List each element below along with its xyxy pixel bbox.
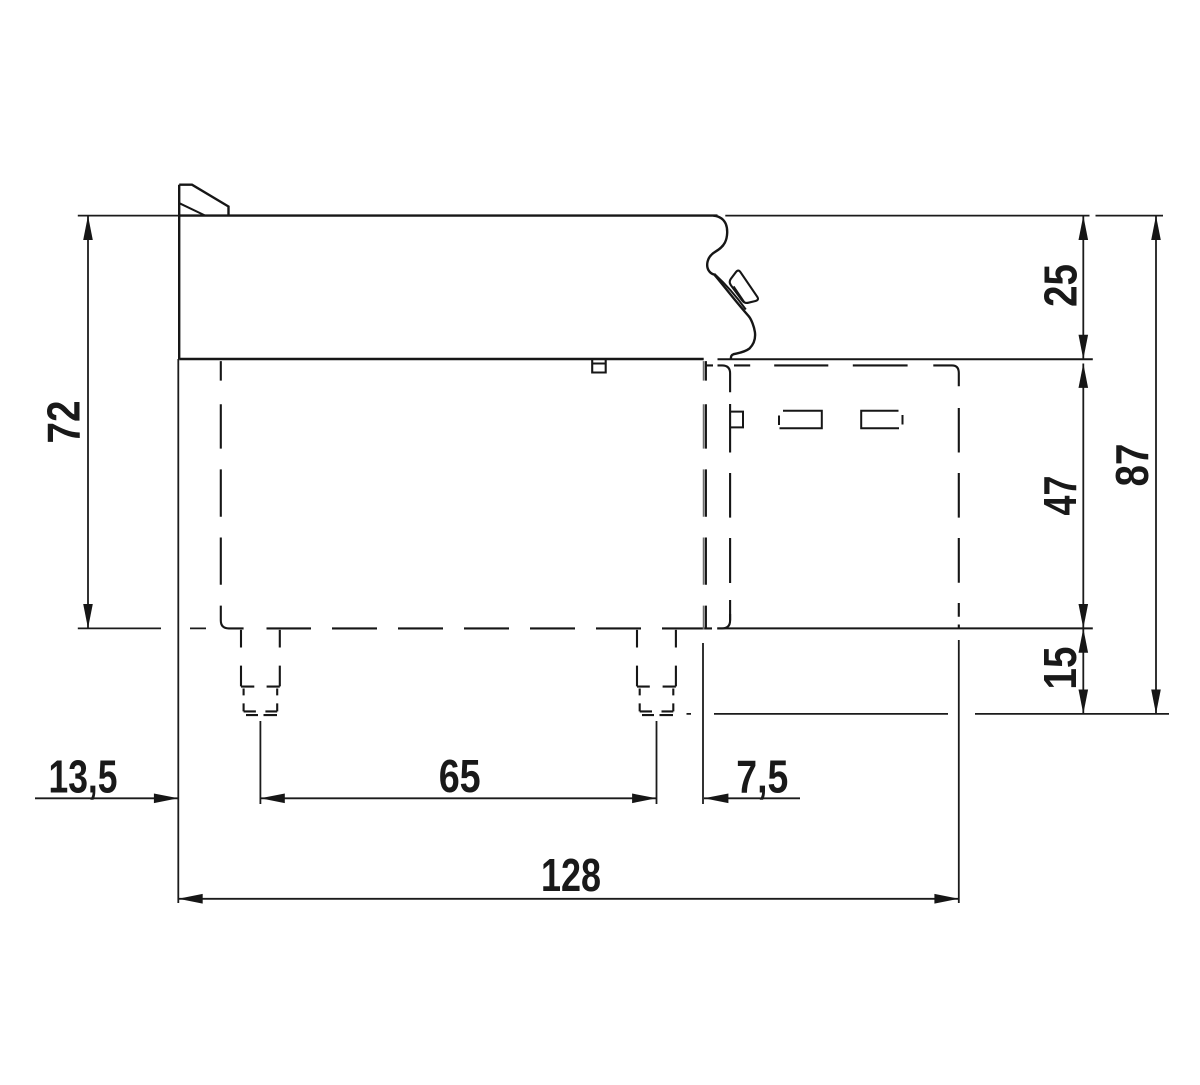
profile left edge xyxy=(178,185,180,359)
dimension line 87 x=1156 xyxy=(1155,216,1157,714)
extension line right foot center x=656.5 xyxy=(656,721,658,804)
svg-text:128: 128 xyxy=(541,849,601,901)
right body inner edge bottom rounded corner xyxy=(717,614,730,628)
hidden (dashed) body outlines xyxy=(221,361,1093,629)
right foot narrow part xyxy=(640,689,674,712)
arrow 72 bottom xyxy=(83,604,93,628)
arrow 128 right xyxy=(934,894,958,904)
left foot narrow part xyxy=(244,689,278,712)
dimension line 13.5 y=798.3 xyxy=(35,797,178,799)
dimension texts xyxy=(37,264,1157,901)
arrow 65 left xyxy=(260,794,284,804)
extension line top left (y=215.6) xyxy=(78,215,179,217)
arrow 72 top xyxy=(83,216,93,240)
right foot outer edges xyxy=(637,630,676,687)
profile top edge xyxy=(179,214,717,216)
feet (dashed) xyxy=(241,630,676,715)
arrowheads xyxy=(83,216,1161,904)
arrow 13.5 (points right at x=178.3) xyxy=(154,794,178,804)
small tab on inner edge xyxy=(730,412,743,428)
right foot bottom xyxy=(640,711,674,715)
svg-text:15: 15 xyxy=(1034,647,1086,690)
extension line left foot center x=260.4 xyxy=(259,721,261,804)
extension line baseline right (y=713.9) xyxy=(687,713,1170,715)
dimension line 47 x=1083.3 xyxy=(1082,364,1084,629)
arrow 15 bottom xyxy=(1079,690,1089,714)
right body inner edge x=730.1 top rounded corner xyxy=(718,365,731,392)
arrow 25 top xyxy=(1079,216,1089,240)
svg-text:72: 72 xyxy=(37,401,89,444)
dimension line 65 y=798.3 xyxy=(260,797,656,799)
svg-text:25: 25 xyxy=(1035,264,1087,307)
small clip under profile xyxy=(592,359,606,372)
top-left tab inner line xyxy=(180,203,206,215)
dimension line 72 vertical x=88 xyxy=(87,216,89,629)
vent slot rectangle 2 xyxy=(861,411,902,429)
arrow 7.5 (points left at x=704) xyxy=(704,794,728,804)
svg-text:13,5: 13,5 xyxy=(49,751,118,803)
arrow 47 top xyxy=(1079,364,1089,388)
dimension line 7.5 y=798.3 xyxy=(704,797,800,799)
DIN-rail clip inner edge xyxy=(714,274,745,310)
top-left mounting tab xyxy=(179,185,228,216)
vent slot rectangle 1 xyxy=(779,411,822,429)
right body top edge y=365.4 xyxy=(706,364,952,366)
extension line slab left vertical x=178.3 xyxy=(177,359,179,903)
arrow 25 bottom xyxy=(1079,335,1089,359)
right body inner edge dashes xyxy=(729,404,731,620)
arrow 87 bottom xyxy=(1151,690,1161,714)
svg-text:65: 65 xyxy=(439,750,481,802)
latch (rotated rounded rectangle) xyxy=(730,271,758,303)
left body bottom edge dashes xyxy=(267,627,713,629)
extension line x=958.8 for 128 xyxy=(958,640,960,903)
left foot bottom xyxy=(244,711,278,715)
left foot step xyxy=(241,686,280,688)
arrow 87 top xyxy=(1151,216,1161,240)
profile bottom edge xyxy=(179,358,704,360)
arrow 128 left xyxy=(178,894,202,904)
profile bottom edge right part xyxy=(718,358,1093,360)
arrow 65 right xyxy=(632,794,656,804)
left body bottom-left rounded corner xyxy=(221,606,244,629)
left body left edge x=220.8 xyxy=(220,361,222,585)
right S-profile outline xyxy=(707,216,755,359)
left foot outer edges xyxy=(241,630,280,687)
arrow 15 top xyxy=(1079,628,1089,652)
svg-text:7,5: 7,5 xyxy=(736,751,788,803)
left body right edge x=703.6 (light) xyxy=(703,361,705,629)
dimension line 15 x=1083.3 xyxy=(1082,628,1084,714)
extension line x=703 for 7.5 xyxy=(702,643,704,804)
arrow 47 bottom xyxy=(1079,604,1089,628)
right body left edge x=705.9 xyxy=(705,361,707,629)
extension line top right (y=215.6) xyxy=(725,215,1163,217)
svg-text:47: 47 xyxy=(1034,476,1086,516)
svg-text:87: 87 xyxy=(1106,444,1158,487)
extension line bottom left dashed (y=628.4) xyxy=(78,627,206,629)
right body bottom edge (solid, doubles as extension line) xyxy=(717,627,1093,629)
right foot step xyxy=(637,686,676,688)
dimension line 128 y=898.8 xyxy=(178,898,959,900)
extension and dimension lines xyxy=(35,216,1169,903)
latch inner line xyxy=(734,286,745,303)
right body top-right rounded corner + right edge x=958.8 xyxy=(952,365,959,628)
dimension line 25 x=1083.3 xyxy=(1082,216,1084,360)
